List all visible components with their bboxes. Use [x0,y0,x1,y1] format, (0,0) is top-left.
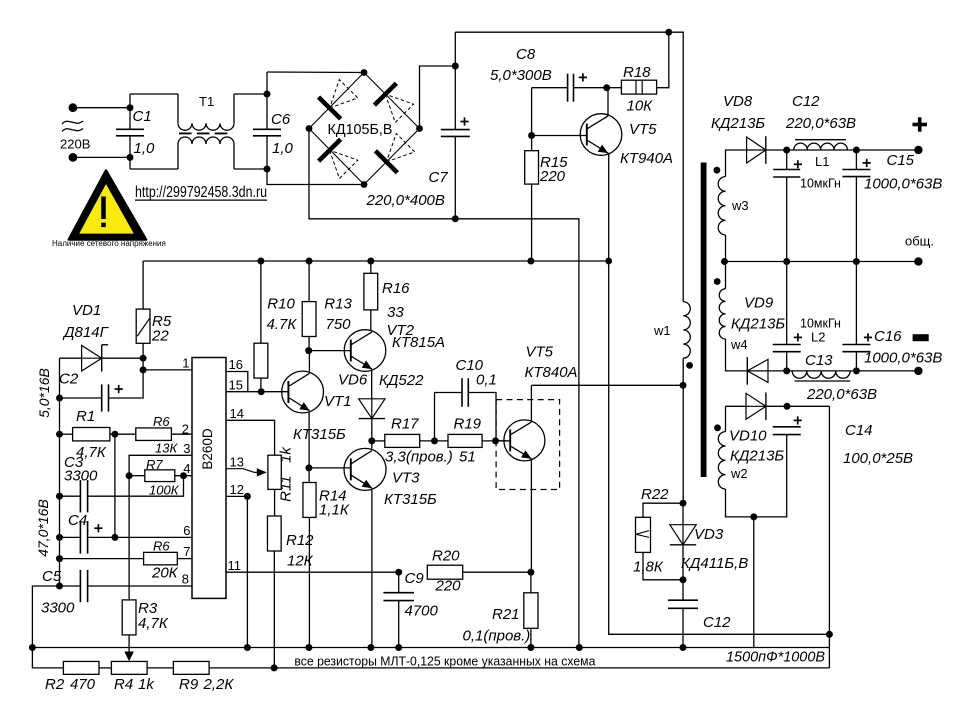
junction [111,534,118,541]
plus C16 [864,333,872,341]
junction [721,258,728,265]
junction [853,258,860,265]
junction [264,166,271,173]
wire pin 13 wiper arrow [226,469,258,473]
wire [682,545,684,580]
wire [267,71,364,74]
svg-text:C4: C4 [68,512,87,529]
junction [452,215,459,222]
resistor R17 [385,434,420,447]
wire [532,135,586,137]
wire [110,433,136,435]
junction [527,569,534,576]
wire [308,468,310,483]
junction [680,500,687,507]
wire [855,177,857,262]
junction [127,104,134,111]
resistor R7 100K [145,470,175,482]
diode VD3 KD411B,V [670,525,696,545]
diode VD9 KD213B [747,357,768,385]
plus C14 [794,416,802,424]
junction [784,403,791,410]
svg-text:3300: 3300 [41,600,75,617]
zener hook VD1 [102,344,109,346]
wire [309,129,455,219]
wire [371,419,373,441]
node bridge top [361,69,368,76]
phase dot w3 [714,167,721,174]
svg-text:КД411Б,В: КД411Б,В [681,555,748,572]
svg-text:C13: C13 [805,352,833,369]
wire [233,144,235,169]
svg-text:КД522: КД522 [379,372,424,389]
wire pin 2 [171,433,192,435]
plus C12 [794,160,802,168]
junction [306,258,313,265]
capacitor C12 output [773,170,800,178]
wire [233,94,235,123]
node bridge right [416,125,423,132]
svg-text:100,0*25В: 100,0*25В [843,450,913,467]
transistor VT5 KT940A [580,114,622,156]
wire pin 3 [129,455,192,475]
transistor VT3 KT315B [344,448,386,490]
wire pin 7 [177,558,192,560]
svg-text:Наличие сетевого напряжения: Наличие сетевого напряжения [52,239,166,248]
wire [786,177,788,262]
junction [527,644,534,651]
svg-text:C8: C8 [516,46,536,63]
svg-text:R4: R4 [114,676,133,693]
diode bridge frame [309,73,420,185]
wire [266,136,268,169]
junction [29,644,36,651]
wire VT1 collector [308,351,310,372]
junction [140,355,147,362]
junction [271,664,278,671]
wire snubber right [828,406,830,634]
svg-text:220В: 220В [60,137,90,152]
wire w3 to VD8 [726,150,747,177]
wire [531,184,533,261]
wire [725,262,727,289]
svg-text:C7: C7 [429,169,449,186]
svg-text:VD1: VD1 [72,302,101,319]
junction [244,644,251,651]
wire pin 15 [226,391,288,393]
svg-text:220,0*400В: 220,0*400В [366,192,445,209]
wire w3 bottom [725,235,727,262]
wire VT1 emitter [308,413,310,468]
resistor R22 [636,517,651,552]
minus output symbol [913,334,929,341]
wire [308,261,310,302]
junction [853,147,860,154]
wire [147,667,173,669]
wire [454,136,456,218]
svg-text:КТ315Б: КТ315Б [293,426,346,443]
svg-text:R19: R19 [454,416,482,433]
resistor R15 [525,151,539,184]
node AC terminal top [69,103,78,112]
wire [726,405,747,407]
wire [530,572,532,593]
wire [682,503,684,525]
svg-text:2: 2 [182,421,189,436]
resistor R20 [427,565,462,579]
resistor R12 [267,516,281,551]
svg-text:R1: R1 [76,408,95,425]
junction [305,644,312,651]
svg-text:C5: C5 [42,568,62,585]
wire snubber stub [828,634,830,668]
wire pin4 to C3 [88,476,184,497]
wire left bus [32,358,59,647]
wire [266,72,268,129]
wire [725,406,727,431]
capacitor C2 [102,384,109,411]
wire [398,601,400,648]
wire primary ground [455,219,579,648]
svg-text:10мкГн: 10мкГн [800,317,841,331]
inductor winding w3 [718,177,725,235]
svg-text:R11 1k: R11 1k [278,446,295,502]
svg-text:R17: R17 [391,416,419,433]
wire [73,107,130,109]
L1 core bar [795,139,846,141]
junction [305,347,312,354]
node AC terminal bottom [69,153,78,162]
resistor R14 [303,483,316,518]
plus C8 [579,73,587,81]
node bridge left [306,125,313,132]
inductor T1 bottom winding [178,137,234,144]
junction [783,147,790,154]
svg-text:w1: w1 [653,323,671,338]
svg-text:R9: R9 [179,676,199,693]
svg-text:3,3(пров.): 3,3(пров.) [385,449,453,466]
junction [750,513,757,520]
inductor T1 top winding [178,123,234,130]
wire [786,352,788,371]
capacitor C1 [116,129,144,136]
capacitor C4 [80,521,87,553]
svg-text:C9: C9 [405,570,425,587]
svg-text:1,0: 1,0 [272,140,294,157]
svg-text:1500пФ*1000В: 1500пФ*1000В [726,649,825,666]
svg-text:КД213Б: КД213Б [730,448,784,465]
wire ground rail [32,647,829,649]
wire +out row [787,149,919,151]
junction [826,631,833,638]
svg-text:12: 12 [230,482,244,497]
diode VD1 zener D814G [82,345,102,372]
svg-text:220,0*63В: 220,0*63В [806,386,877,403]
svg-text:R22: R22 [641,486,669,503]
wire R7 to R3 [128,476,130,600]
svg-text:10К: 10К [627,98,654,115]
resistor R4 trimmer [111,661,147,674]
wire [786,150,788,170]
resistor R13 [302,302,316,337]
svg-text:L1: L1 [815,154,829,169]
resistor R19 [448,434,482,447]
svg-text:C2: C2 [59,371,79,388]
svg-text:КТ315Б: КТ315Б [384,491,437,508]
junction [680,382,687,389]
plus output symbol [913,117,928,131]
capacitor C15 [842,170,870,177]
phase dot w1 [686,362,693,369]
capacitor C14 [773,427,801,435]
wire VT5 base [496,440,510,442]
resistor R10 [254,343,268,378]
svg-text:общ.: общ. [905,234,934,249]
resistor R21 [524,593,538,629]
junction [244,493,251,500]
junction [367,644,374,651]
svg-text:1,0: 1,0 [134,140,156,157]
junction [258,388,265,395]
wire [177,94,179,123]
svg-text:VT5: VT5 [629,121,657,138]
junction [603,84,610,91]
svg-text:R18: R18 [623,64,651,81]
svg-text:КТ815А: КТ815А [392,334,445,351]
dashed box VT5 [496,400,559,490]
svg-text:3: 3 [183,441,190,456]
node bridge bottom [361,181,368,188]
wire [370,261,372,273]
inductor winding w1 [683,302,690,359]
resistor R18 [621,80,656,94]
wire [855,150,857,170]
junction [395,644,402,651]
resistor R9 [173,661,209,674]
wire [420,66,456,129]
wire [766,149,787,151]
wire w2 bottom loop [726,435,787,517]
junction [257,258,264,265]
junction [452,63,459,70]
wire R3 to R4 with arrow [128,635,130,656]
junction [783,367,790,374]
wire [530,628,532,647]
svg-text:220: 220 [539,168,566,185]
svg-text:C15: C15 [887,152,915,169]
wire [682,608,684,647]
wire [129,136,131,169]
wire [454,32,456,129]
wire VD10 to snubber [766,405,830,407]
svg-text:VD8: VD8 [723,93,753,110]
svg-text:C14: C14 [845,422,873,439]
wire [60,585,81,587]
wire VT5 emitter [530,460,532,572]
wire [267,169,364,185]
svg-text:w2: w2 [730,466,748,481]
wire divider row left [32,648,63,668]
capacitor C5 [80,570,87,602]
junction [56,555,63,562]
wire R14 to ground [308,517,310,647]
diode bridge bottom-right [375,134,414,173]
svg-text:1k: 1k [138,676,155,693]
junction [140,366,147,373]
resistor R1 [73,428,110,441]
wire [234,93,267,95]
wire VT3 emitter to ground [371,490,373,648]
wire VT5 emitter down [609,153,830,635]
svg-text:13: 13 [230,454,244,469]
svg-text:10мкГн: 10мкГн [800,177,841,191]
wire [372,440,385,442]
phase dot w2 [714,424,721,431]
svg-text:33: 33 [387,304,404,321]
warning triangle [69,171,146,240]
svg-text:11: 11 [228,558,242,573]
svg-text:0,1(пров.): 0,1(пров.) [463,628,531,645]
plus C15 [863,159,871,167]
wire [398,572,400,593]
svg-text:C12: C12 [703,614,731,631]
svg-text:КТ940А: КТ940А [620,150,673,167]
resistor R5 [136,309,150,343]
junction [56,583,63,590]
svg-text:47,0*16В: 47,0*16В [35,499,51,557]
svg-text:4: 4 [183,461,190,476]
L2 core bar [794,380,850,382]
junction [576,644,583,651]
wire [855,262,857,345]
svg-text:R21: R21 [492,606,520,623]
diode VD6 KD522 [359,399,385,419]
svg-text:220,0*63В: 220,0*63В [785,115,856,132]
junction [368,437,375,444]
wire [60,357,82,359]
wire [99,667,111,669]
svg-text:1000,0*63В: 1000,0*63В [864,176,942,193]
svg-text:VD3: VD3 [694,526,724,543]
junction [127,154,134,161]
junction [56,431,63,438]
wire [129,475,145,477]
wire [142,343,144,370]
svg-text:13К: 13К [155,441,178,456]
wire pin 16 [226,372,248,392]
capacitor C9 [383,593,414,601]
wire w1 bottom [682,358,684,503]
svg-text:R6: R6 [153,414,170,429]
diode bridge bottom-left [319,139,358,178]
wire collector to w1 [532,384,683,386]
wire [73,156,130,158]
capacitor C3 [80,480,87,512]
svg-text:КД213Б: КД213Б [731,316,785,333]
wire [482,440,508,442]
transformer T2 core [701,163,707,478]
wire [88,536,115,538]
wire [130,93,178,95]
wire [260,261,262,343]
wire pin 11 [226,571,399,573]
svg-text:Д814Г: Д814Г [62,324,110,341]
svg-text:8: 8 [182,572,189,587]
junction [126,472,133,479]
svg-text:1000,0*63В: 1000,0*63В [864,350,942,367]
wire divider row right [209,667,829,669]
junction [111,431,118,438]
junction [853,367,860,374]
wire [607,87,622,89]
svg-text:w4: w4 [730,337,748,352]
inductor winding w4 [719,289,725,339]
wire w4 to VD9 [726,339,748,371]
node emitter rail [605,258,612,265]
resistor R6 13K [136,428,172,441]
svg-text:T1: T1 [199,94,214,109]
svg-text:R16: R16 [382,280,410,297]
node common terminal [914,257,922,265]
junction [56,493,63,500]
wire -out row [787,370,919,372]
wire [260,378,262,392]
svg-text:C16: C16 [874,328,902,345]
transistor VT5 KT840A [504,420,545,461]
junction [56,395,63,402]
svg-text:КТ840А: КТ840А [525,364,578,381]
inductor L1 [794,143,848,150]
svg-text:КД213Б: КД213Б [711,115,765,132]
wire pin 12 to ground [226,496,247,647]
R22 mark [636,531,649,538]
svg-text:1: 1 [182,355,189,370]
phase dot w4 [714,278,721,285]
svg-text:5,0*16В: 5,0*16В [36,368,52,418]
wire [60,536,81,538]
wire R12 to divider row [273,551,275,668]
resistor R11 1k trimmer [268,455,281,489]
svg-text:4,7К: 4,7К [138,615,169,632]
wire [114,434,116,537]
svg-text:15: 15 [229,377,243,392]
wire C10 right [468,393,496,441]
diode VD8 KD213B [747,136,766,164]
junction [492,437,499,444]
svg-text:4.7К: 4.7К [267,316,298,333]
junction [680,576,687,583]
wire [234,168,267,170]
wire [682,580,684,600]
wire common rail [725,261,919,263]
svg-text:R13: R13 [324,296,352,313]
svg-text:3300: 3300 [64,468,98,485]
svg-text:5,0*300В: 5,0*300В [490,67,552,84]
plus C2 [115,385,123,393]
svg-text:R20: R20 [432,548,460,565]
svg-text:470: 470 [70,676,96,693]
junction [180,472,187,479]
junction [56,534,63,541]
wire [130,168,178,170]
svg-text:1,1К: 1,1К [319,502,350,519]
diode bridge top-right [374,83,413,122]
wire R22 bottom [643,552,683,579]
capacitor C10 [462,378,468,407]
svg-text:R7: R7 [146,457,163,472]
capacitor C12 snubber [668,600,698,608]
svg-text:R6: R6 [153,539,170,554]
